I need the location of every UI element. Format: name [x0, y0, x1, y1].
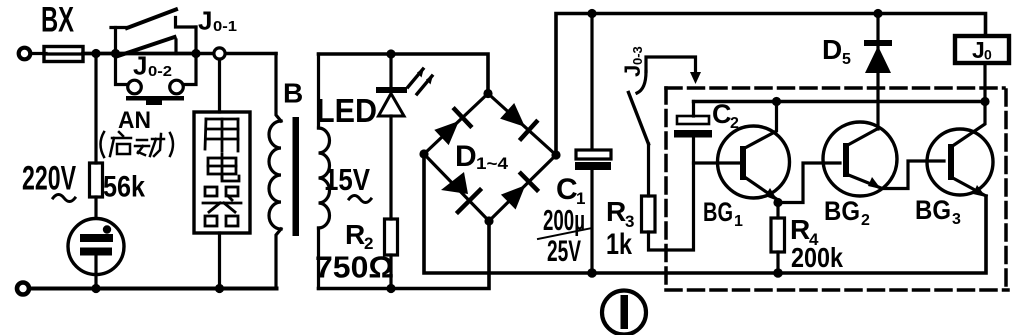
fuse BX — [44, 47, 83, 62]
svg-text:0-2: 0-2 — [148, 63, 172, 80]
svg-text:BG: BG — [824, 196, 860, 226]
svg-text:AN: AN — [118, 107, 151, 134]
label (qi dong) start — [101, 132, 174, 157]
svg-text:C: C — [556, 173, 578, 206]
svg-text:C: C — [712, 99, 732, 129]
capacitor C2 — [674, 102, 712, 138]
wire node to appliance-circle — [196, 52, 276, 56]
wire J0 coil leads — [983, 63, 986, 102]
svg-text:1~4: 1~4 — [476, 154, 509, 173]
svg-text:15V: 15V — [324, 162, 370, 197]
hanzi qi3 — [205, 187, 217, 196]
svg-text:BG: BG — [703, 197, 733, 227]
relay contact J0-1 — [111, 10, 196, 54]
node switch right junction — [191, 49, 200, 58]
wire secondary bottom — [319, 221, 490, 289]
wire negative rail (bridge left vertex to right) — [424, 154, 986, 273]
svg-text:5: 5 — [842, 51, 851, 68]
svg-text:220V: 220V — [22, 160, 76, 198]
svg-text:750Ω: 750Ω — [315, 250, 394, 285]
resistor 56k — [90, 163, 103, 197]
appliance box yong-dian-qi — [194, 112, 250, 233]
pushbutton AN — [116, 54, 197, 106]
resistor R4 — [771, 203, 785, 274]
svg-text:1k: 1k — [606, 228, 632, 261]
svg-text:R: R — [790, 214, 810, 245]
svg-text:200k: 200k — [791, 242, 843, 273]
neon lamp — [68, 219, 124, 289]
relay contact J0-3 — [629, 57, 702, 196]
hanzi yong — [205, 119, 206, 149]
hanzi dong — [137, 139, 147, 142]
LED indicator — [376, 54, 433, 219]
transformer B secondary — [319, 54, 330, 289]
resistor R3 — [642, 196, 656, 232]
terminal appliance tap — [214, 48, 225, 59]
relay contact J0-2 — [118, 37, 176, 56]
resistor R2 — [385, 219, 398, 255]
svg-text:R: R — [345, 219, 365, 250]
transistor BG1 — [694, 102, 790, 202]
node switch left junction — [111, 49, 120, 58]
svg-text:D: D — [455, 140, 477, 173]
hanzi qi — [119, 132, 123, 136]
wire terminal to fuse — [31, 52, 47, 55]
svg-text:D: D — [822, 34, 842, 65]
transformer core — [293, 117, 300, 236]
terminal left bottom — [17, 283, 29, 295]
svg-text:0-1: 0-1 — [213, 18, 237, 35]
wire BG1 emitter to BG2 base — [778, 163, 840, 203]
svg-text:BG: BG — [915, 195, 951, 225]
wire secondary top rail — [319, 54, 489, 94]
svg-text:BX: BX — [41, 1, 74, 40]
transistor BG3 — [927, 102, 993, 198]
svg-text:1: 1 — [734, 213, 743, 230]
wire positive top rail (bridge right vertex up and right) — [556, 14, 986, 156]
svg-text:J: J — [620, 65, 645, 77]
relay coil J0 — [955, 36, 1009, 63]
svg-text:0-3: 0-3 — [630, 46, 645, 65]
wire 56k to neon — [94, 197, 97, 236]
svg-text:56k: 56k — [103, 171, 145, 204]
wire inner collector rail — [694, 100, 986, 103]
svg-text:25V: 25V — [547, 235, 581, 268]
terminal left input — [19, 48, 31, 60]
node fuse/56k junction — [91, 49, 100, 58]
diode top-right — [500, 103, 525, 127]
hanzi dian — [221, 154, 224, 178]
diode top-left — [434, 121, 459, 145]
transformer B primary — [269, 54, 281, 289]
bridge rectifier D1-4 — [424, 94, 556, 222]
node neon/bottom junction — [91, 284, 100, 293]
diode bottom-left — [441, 172, 468, 194]
wire BG2 emitter to BG3 base — [881, 161, 944, 189]
svg-text:R: R — [606, 196, 626, 227]
svg-text:0: 0 — [984, 47, 992, 63]
svg-text:J: J — [972, 37, 985, 63]
dashed module box — [666, 88, 1008, 290]
svg-text:J: J — [133, 51, 147, 81]
capacitor C1 — [575, 14, 611, 274]
transistor BG2 — [823, 122, 897, 196]
svg-text:200µ: 200µ — [543, 205, 585, 237]
svg-text:2: 2 — [861, 212, 870, 229]
resistor 56k branch wire — [94, 54, 97, 164]
svg-text:B: B — [283, 78, 303, 109]
figure number 1 circled — [602, 291, 646, 335]
node appliance/bottom junction — [215, 284, 224, 293]
svg-text:J: J — [198, 6, 212, 36]
diode D5 — [864, 14, 892, 130]
svg-text:3: 3 — [952, 211, 961, 228]
diode bottom-right — [501, 185, 525, 209]
wire bottom left — [29, 287, 277, 291]
wire fuse to switch nodes — [83, 52, 196, 56]
svg-text:LED: LED — [316, 92, 377, 129]
